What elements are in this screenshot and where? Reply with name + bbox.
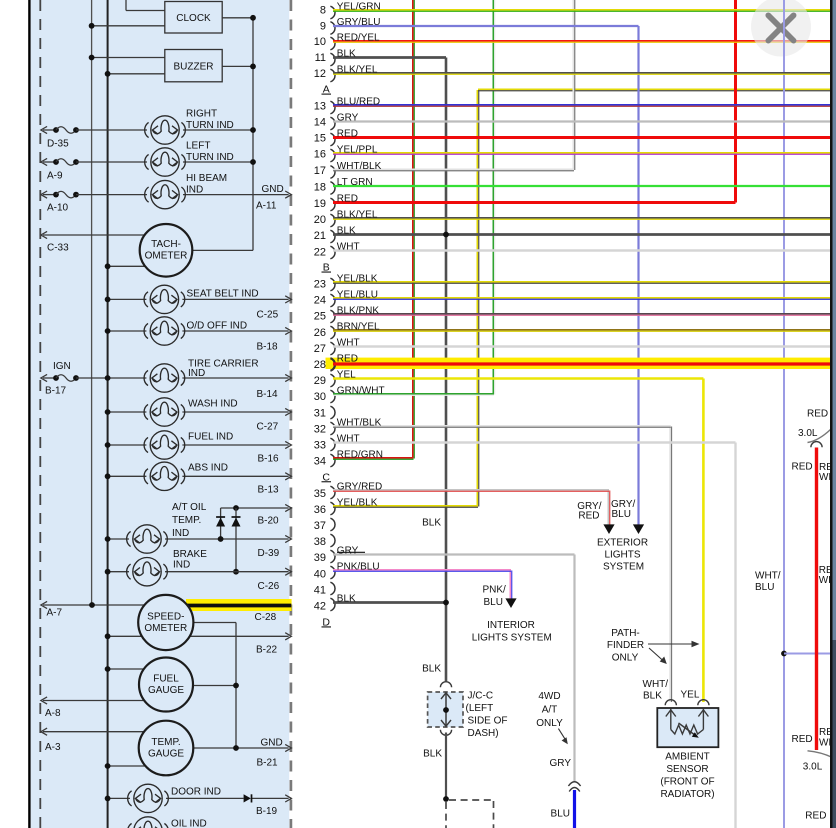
svg-text:30: 30	[314, 391, 326, 403]
diode D1 vertical link	[220, 508, 222, 539]
wire WHT/BLU branch to edge	[784, 653, 830, 655]
junction seat belt feed	[105, 297, 111, 303]
pin 31 connector (unused)	[314, 406, 335, 419]
wire dashed continuation down x=446	[445, 802, 447, 828]
pointer arrow pathfinder to WHT/BLK wire	[649, 648, 667, 664]
svg-text:OMETER: OMETER	[145, 251, 188, 262]
wire dashed continuation down x=493.5	[493, 801, 495, 828]
junction A/T oil diode	[218, 536, 224, 542]
svg-text:WASH IND: WASH IND	[188, 399, 238, 410]
pin 27 connector wire WHT	[314, 338, 830, 355]
label PATH-FINDER ONLY	[607, 628, 644, 664]
wire GRY vertical x=574.5	[573, 555, 575, 783]
wire clock lower feed	[92, 25, 165, 27]
indicator lamp HI BEAM IND	[145, 180, 186, 208]
junction tachometer feed	[105, 263, 111, 269]
connector D-35 entry	[41, 126, 79, 133]
indicator lamp TIRE CARRIER IND	[144, 364, 185, 392]
svg-text:11: 11	[315, 52, 326, 64]
svg-text:INTERIOR: INTERIOR	[487, 620, 535, 631]
svg-text:GND: GND	[261, 738, 283, 749]
svg-text:WHT: WHT	[337, 338, 360, 349]
diode D2 vertical link	[235, 508, 237, 572]
wire clock feed drop x=126	[125, 0, 127, 11]
junction clock ground	[250, 15, 256, 21]
svg-text:TACH-: TACH-	[151, 239, 181, 250]
indicator lamp BRAKE IND	[127, 558, 168, 586]
svg-text:FUEL: FUEL	[153, 673, 179, 684]
svg-text:22: 22	[314, 246, 326, 258]
svg-text:B-19: B-19	[256, 806, 278, 817]
svg-text:28: 28	[314, 359, 326, 371]
wire RED/GRN vertical x=413.5	[412, 0, 414, 459]
svg-text:YEL/BLU: YEL/BLU	[337, 290, 378, 301]
svg-text:BLK: BLK	[422, 517, 441, 528]
wire WHT/BLU vertical x=784	[783, 0, 785, 828]
svg-text:EXTERIOR: EXTERIOR	[597, 537, 648, 548]
inline connector GRY/BLU transition	[568, 782, 580, 792]
pin 15 connector wire RED	[314, 129, 830, 146]
svg-text:17: 17	[314, 165, 326, 177]
clock box	[165, 2, 222, 34]
pin 10 connector wire RED/YEL	[314, 33, 830, 50]
connector A-7 entry	[41, 601, 144, 608]
svg-text:SEAT BELT IND: SEAT BELT IND	[187, 289, 259, 300]
svg-text:DOOR IND: DOOR IND	[171, 787, 221, 798]
junction BLK bottom	[443, 796, 449, 802]
arrow B-20	[285, 504, 291, 511]
svg-text:GRY: GRY	[337, 113, 359, 124]
label RED/WHT right edge lower	[819, 727, 836, 749]
svg-text:3.0L: 3.0L	[798, 428, 818, 439]
junction B-20 row	[233, 505, 239, 511]
svg-text:9: 9	[320, 20, 326, 32]
connector 3.0L top	[808, 430, 831, 448]
svg-text:3.0L: 3.0L	[803, 761, 823, 772]
label INTERIOR LIGHTS SYSTEM	[472, 620, 552, 644]
svg-text:8: 8	[320, 5, 326, 17]
wire fuel gauge right link	[190, 685, 236, 687]
svg-text:BRAKE: BRAKE	[173, 549, 207, 560]
svg-text:D-39: D-39	[258, 548, 280, 559]
svg-text:SYSTEM: SYSTEM	[603, 562, 644, 573]
svg-text:ONLY: ONLY	[612, 653, 639, 664]
wire clock ground	[222, 17, 253, 19]
svg-text:BLU: BLU	[484, 597, 503, 608]
wire wash ind row	[108, 411, 147, 413]
svg-text:SPEED-: SPEED-	[147, 611, 184, 622]
indicator lamp O/D OFF IND	[144, 317, 185, 345]
junction diode D2 to brake row	[233, 569, 239, 575]
svg-text:A-3: A-3	[45, 742, 61, 753]
wire B-22 row	[108, 635, 142, 637]
svg-text:B-18: B-18	[257, 342, 279, 353]
svg-text:IND: IND	[188, 368, 205, 379]
pin 35 connector wire GRY/RED	[314, 482, 609, 500]
junction box J/C-C	[428, 692, 463, 727]
svg-text:IGN: IGN	[53, 361, 71, 372]
svg-text:IND: IND	[186, 185, 203, 196]
svg-text:WHT: WHT	[337, 242, 360, 253]
arrow C-27	[285, 408, 291, 415]
wire speedometer right link	[193, 622, 236, 624]
svg-text:A-8: A-8	[45, 708, 61, 719]
svg-text:19: 19	[314, 198, 326, 210]
junction buzzer feed	[89, 55, 95, 61]
junction fuel gauge ground	[233, 683, 239, 689]
arrow D-39	[285, 535, 291, 542]
wire bus B+ vertical x=91.6	[91, 0, 93, 605]
svg-text:LIGHTS: LIGHTS	[604, 549, 640, 560]
pin 41 connector (unused)	[314, 582, 335, 596]
arrow B-14	[285, 374, 291, 381]
svg-text:BLK: BLK	[337, 594, 356, 605]
pin 28 connector wire RED	[314, 354, 830, 371]
svg-text:23: 23	[314, 278, 326, 290]
svg-text:C-26: C-26	[258, 581, 280, 592]
gauge fuel gauge	[139, 658, 193, 712]
svg-text:16: 16	[314, 149, 326, 161]
indicator lamp A/T OIL TEMP IND	[127, 525, 168, 553]
svg-text:20: 20	[314, 214, 326, 226]
label GND A-11	[256, 184, 284, 212]
svg-text:GAUGE: GAUGE	[148, 685, 184, 696]
connector A-9 entry	[41, 158, 79, 165]
svg-text:BLK/YEL: BLK/YEL	[337, 65, 378, 76]
svg-text:TEMP.: TEMP.	[151, 737, 180, 748]
svg-text:RED: RED	[337, 354, 358, 365]
arrow C-25	[285, 296, 291, 303]
pin 32 connector wire WHT/BLK	[314, 418, 671, 436]
junction ABS feed	[105, 473, 111, 479]
svg-text:B-17: B-17	[45, 386, 67, 397]
svg-text:WHT/: WHT/	[755, 571, 781, 582]
svg-text:RADIATOR): RADIATOR)	[660, 789, 714, 800]
connector B-17 IGN entry	[41, 374, 79, 381]
junction right turn to ground bus	[250, 127, 256, 133]
svg-text:BLK: BLK	[337, 49, 356, 60]
svg-text:BLK/PNK: BLK/PNK	[337, 306, 380, 317]
junction left turn to ground bus	[250, 159, 256, 165]
right page border	[830, 0, 833, 828]
pin 34 connector wire RED/GRN	[314, 450, 414, 468]
indicator lamp DOOR IND	[128, 784, 169, 812]
svg-text:4WD: 4WD	[538, 691, 560, 702]
wire WHT/BLU vertical over close button	[783, 0, 785, 58]
svg-text:RED: RED	[337, 194, 358, 205]
svg-text:AMBIENT: AMBIENT	[665, 752, 709, 763]
pin 24 connector wire YEL/BLU	[314, 290, 830, 307]
label RED/WHT right edge middle	[819, 565, 836, 586]
svg-text:WHT/: WHT/	[643, 679, 669, 690]
svg-text:37: 37	[314, 520, 326, 532]
svg-text:B-21: B-21	[257, 758, 279, 769]
svg-text:RED: RED	[792, 461, 813, 472]
svg-text:10: 10	[314, 36, 326, 48]
pin 36 connector wire YEL/BLK	[314, 498, 478, 516]
svg-text:27: 27	[314, 343, 326, 355]
svg-text:A-11: A-11	[256, 201, 277, 212]
svg-text:RED: RED	[805, 810, 826, 821]
svg-text:31: 31	[314, 407, 326, 419]
svg-text:B-16: B-16	[258, 454, 280, 465]
arrow B-16	[285, 441, 291, 448]
svg-text:WHT/BLK: WHT/BLK	[337, 161, 382, 172]
svg-text:12: 12	[314, 68, 326, 80]
pin 13 connector wire BLU/RED	[314, 97, 830, 114]
indicator lamp LEFT TURN IND	[145, 148, 186, 176]
wire BLK below J/C-C	[445, 733, 447, 800]
pin 42 connector wire BLK	[314, 594, 446, 613]
svg-text:SENSOR: SENSOR	[666, 764, 708, 775]
svg-text:GAUGE: GAUGE	[148, 748, 184, 759]
svg-text:40: 40	[314, 568, 326, 580]
svg-text:PNK/: PNK/	[483, 585, 507, 596]
pin 37 connector (unused)	[314, 518, 335, 532]
diode D3 door ind	[244, 794, 252, 802]
junction A/T oil feed	[105, 536, 111, 542]
wire dashed branch right	[449, 799, 494, 801]
svg-text:A-7: A-7	[47, 608, 63, 619]
svg-text:DASH): DASH)	[468, 728, 499, 739]
label WHT/BLU	[755, 571, 781, 594]
highlight band pin 28 RED wire	[326, 358, 831, 369]
svg-text:TEMP.: TEMP.	[172, 515, 201, 526]
svg-text:35: 35	[314, 488, 326, 500]
svg-text:WHT: WHT	[337, 434, 360, 445]
svg-text:CLOCK: CLOCK	[176, 13, 211, 24]
arrow B-22	[285, 633, 291, 640]
left page border	[28, 0, 30, 828]
wire GRY/BLU vertical x=638.5	[637, 26, 639, 525]
svg-text:GND: GND	[262, 184, 284, 195]
svg-text:21: 21	[314, 230, 326, 242]
svg-text:BLU: BLU	[612, 509, 631, 520]
svg-text:36: 36	[314, 504, 326, 516]
pin 20 connector wire BLK/YEL	[314, 210, 830, 227]
svg-text:13: 13	[314, 100, 326, 112]
wire clock top feed	[126, 10, 165, 12]
svg-text:41: 41	[314, 584, 326, 596]
connector section label C	[322, 471, 332, 483]
label GRY/RED	[577, 501, 601, 522]
wire PNK/BLU vertical x=511	[509, 571, 511, 599]
label BRAKE IND	[173, 549, 207, 571]
wire tachometer feed	[108, 265, 146, 267]
wire tire carrier ind row	[76, 377, 146, 379]
arrow PNK/BLU to interior lights	[505, 598, 516, 608]
svg-text:RIGHT: RIGHT	[186, 109, 217, 120]
svg-text:BLK: BLK	[643, 691, 662, 702]
wire GRY/RED vertical x=609	[607, 491, 609, 525]
svg-text:A-9: A-9	[47, 171, 63, 182]
junction wash feed	[105, 409, 111, 415]
svg-text:YEL/BLK: YEL/BLK	[337, 498, 378, 509]
arrow B-13	[285, 473, 291, 480]
pin 26 connector wire BRN/YEL	[314, 322, 830, 339]
wire buzzer lower feed	[108, 73, 165, 75]
svg-text:29: 29	[314, 375, 326, 387]
arrow B-18	[285, 327, 291, 334]
junction tire carrier feed	[105, 375, 111, 381]
wire BLK vertical x=446	[445, 58, 448, 682]
scrollbar track	[833, 0, 836, 828]
svg-text:C-25: C-25	[257, 310, 279, 321]
label LEFT TURN IND	[186, 141, 234, 164]
diode D1	[216, 517, 225, 527]
label J/C-C (LEFT SIDE OF DASH)	[466, 691, 508, 740]
svg-text:BLK: BLK	[422, 664, 441, 675]
wire GRN/WHT vertical x=494	[492, 0, 494, 395]
pin 18 connector wire LT GRN	[314, 177, 830, 194]
svg-text:LEFT: LEFT	[186, 141, 210, 152]
wire B-20 row	[221, 507, 289, 509]
diode D2	[232, 517, 241, 527]
svg-text:RED: RED	[792, 734, 813, 745]
label EXTERIOR LIGHTS SYSTEM	[597, 537, 648, 572]
label RED/WHT right edge upper	[819, 462, 836, 483]
wire fuel ind row	[108, 444, 147, 446]
label HI BEAM IND	[186, 173, 227, 196]
pin 22 connector wire WHT	[314, 242, 830, 259]
pin 39 connector wire GRY	[314, 546, 575, 565]
highlighted wire C-28 speedometer output	[186, 599, 292, 611]
connector A-3 entry	[41, 728, 145, 735]
pin 14 connector wire GRY	[314, 113, 830, 130]
svg-text:GRN/WHT: GRN/WHT	[337, 386, 385, 397]
svg-text:24: 24	[314, 295, 326, 307]
wire RED vertical x=816.5 (3.0L)	[815, 448, 818, 751]
svg-text:ABS IND: ABS IND	[188, 463, 228, 474]
connector 3.0L bottom	[808, 751, 833, 758]
wire right turn row	[76, 129, 147, 131]
svg-text:SIDE OF: SIDE OF	[468, 716, 508, 727]
wire bus IGN vertical x=107.6	[107, 0, 109, 828]
svg-text:C-33: C-33	[47, 243, 69, 254]
wire gauge ground vertical x=236	[235, 623, 237, 749]
junction fuel ind feed	[105, 442, 111, 448]
svg-text:TURN IND: TURN IND	[186, 152, 234, 163]
ambient sensor box (thermistor)	[657, 708, 718, 747]
svg-text:BRN/YEL: BRN/YEL	[337, 322, 380, 333]
svg-text:34: 34	[314, 456, 326, 468]
svg-text:J/C-C: J/C-C	[468, 691, 494, 702]
svg-text:15: 15	[314, 133, 326, 145]
svg-text:38: 38	[314, 536, 326, 548]
connector section label B	[322, 262, 332, 274]
svg-text:BLK: BLK	[423, 749, 442, 760]
svg-text:B-13: B-13	[258, 485, 280, 496]
arrow B-19	[285, 795, 291, 802]
label AMBIENT SENSOR (FRONT OF RADIATOR)	[660, 752, 714, 801]
svg-text:PNK/BLU: PNK/BLU	[337, 562, 380, 573]
svg-text:OIL IND: OIL IND	[171, 819, 207, 828]
svg-text:25: 25	[314, 311, 326, 323]
arrow C-26	[285, 568, 291, 575]
pin 19 connector wire RED	[314, 194, 736, 211]
buzzer box	[165, 50, 222, 82]
connector section label D	[322, 616, 332, 628]
svg-text:HI BEAM: HI BEAM	[186, 173, 227, 184]
svg-text:RED/GRN: RED/GRN	[337, 450, 383, 461]
junction buzzer lower feed	[105, 71, 111, 77]
junction pin 21 BLK	[443, 232, 449, 238]
label 4WD A/T ONLY	[536, 691, 563, 729]
svg-text:OMETER: OMETER	[144, 623, 187, 634]
junction temp gauge feed	[105, 763, 111, 769]
wire BLU vertical bottom	[573, 790, 576, 828]
gauge tachometer	[140, 224, 193, 277]
svg-text:39: 39	[314, 552, 326, 564]
svg-text:GRY: GRY	[337, 546, 359, 557]
svg-text:B-22: B-22	[256, 645, 278, 656]
pointer arrow 4WD to GRY wire	[558, 729, 567, 745]
connector bump YEL at ambient sensor	[698, 700, 709, 706]
junction brake feed	[105, 569, 111, 575]
indicator lamp RIGHT TURN IND	[145, 116, 186, 144]
svg-text:TURN IND: TURN IND	[186, 120, 234, 131]
svg-text:RED/YEL: RED/YEL	[337, 33, 380, 44]
svg-text:YEL: YEL	[337, 370, 356, 381]
label GRY/BLU	[611, 499, 635, 520]
svg-text:IND: IND	[173, 560, 190, 571]
svg-text:B-20: B-20	[258, 516, 280, 527]
wire YEL/BLK horizontal at y=90 to edge	[478, 88, 830, 90]
indicator lamp OIL IND	[128, 817, 169, 828]
wire seat belt ind row	[108, 298, 147, 300]
wire O/D off ind row	[108, 330, 147, 332]
pin 30 connector wire GRN/WHT	[314, 386, 494, 403]
svg-text:IND: IND	[172, 528, 189, 539]
connector bump WHT/BLK at ambient sensor	[665, 700, 676, 706]
wire left turn row	[76, 161, 147, 163]
svg-text:32: 32	[314, 423, 326, 435]
close button	[751, 0, 811, 57]
pin 33 connector wire WHT	[314, 434, 736, 452]
svg-text:RED: RED	[337, 129, 358, 140]
wire RED vertical x=735.5 top	[734, 0, 737, 203]
svg-text:A/T OIL: A/T OIL	[172, 502, 207, 513]
pin 16 connector wire YEL/PPL	[314, 145, 830, 162]
indicator lamp FUEL IND	[144, 431, 185, 459]
junction O/D off feed	[105, 328, 111, 334]
panel right dashed border	[290, 0, 293, 828]
pin 21 connector wire BLK	[314, 226, 830, 243]
junction temp gauge ground	[233, 745, 239, 751]
svg-text:FUEL IND: FUEL IND	[188, 432, 233, 443]
junction fuel gauge feed	[105, 666, 111, 672]
wire brake ind row	[108, 571, 129, 573]
svg-text:BLK: BLK	[337, 226, 356, 237]
gauge speedometer	[138, 595, 193, 650]
indicator lamp SEAT BELT IND	[144, 285, 185, 313]
pin 8 connector wire YEL/GRN	[320, 2, 830, 19]
label TIRE CARRIER IND	[188, 359, 259, 380]
wire YEL vertical x=703.4 to ambient sensor	[702, 379, 705, 703]
arrow B-21	[285, 744, 291, 751]
svg-text:BLK/YEL: BLK/YEL	[337, 210, 378, 221]
junction pin 42 BLK	[443, 600, 449, 606]
svg-text:(FRONT OF: (FRONT OF	[660, 777, 714, 788]
junction buzzer ground	[250, 64, 256, 70]
wire ABS ind row	[108, 475, 147, 477]
wire door ind row	[108, 797, 130, 799]
svg-text:WHT/BLK: WHT/BLK	[337, 418, 382, 429]
svg-text:YEL: YEL	[681, 690, 700, 701]
svg-text:18: 18	[314, 181, 326, 193]
label A/T OIL TEMP. IND	[172, 502, 207, 539]
wire tachometer ground	[192, 249, 253, 251]
